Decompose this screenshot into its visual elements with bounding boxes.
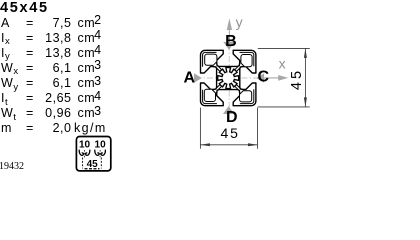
svg-text:A: A [184,69,196,86]
centerline horizontal [196,77,263,79]
web 3 [234,83,241,90]
corner chamber 4 [204,89,215,101]
property table [0,16,180,31]
svg-text:45: 45 [221,125,240,141]
svg-text:10: 10 [79,140,91,151]
profile outer contour with T-slots [201,50,256,105]
inner wall contour quadrant 3 [240,89,254,103]
web 4 [216,83,223,90]
corner chamber 3 [240,91,252,102]
inner wall contour quadrant 4 [203,90,217,104]
inner wall contour quadrant 1 [203,52,217,66]
corner chamber 2 [241,55,252,67]
svg-text:45: 45 [289,68,305,90]
x axis [263,55,289,81]
title 45x45 [0,0,49,16]
corner chamber 1 [205,54,217,65]
svg-text:y: y [236,14,243,30]
dimension 45 bottom [200,108,257,149]
svg-text:D: D [226,109,238,126]
centerline vertical [228,45,230,113]
svg-text:x: x [279,55,286,71]
web 2 [234,66,241,73]
dimension 45 right [258,48,310,107]
web 1 [216,66,223,73]
svg-text:C: C [258,69,270,86]
part number [0,161,24,172]
view arrow B [223,33,236,50]
slot/line icon box [76,137,110,171]
view arrow A [184,69,202,86]
y axis [227,14,243,47]
inner wall contour quadrant 2 [240,52,254,66]
center bore splined [218,68,239,89]
svg-text:B: B [225,33,237,50]
view arrow C [256,69,269,86]
svg-text:45: 45 [87,159,99,170]
svg-text:10: 10 [95,140,107,151]
view arrow D [223,106,238,126]
